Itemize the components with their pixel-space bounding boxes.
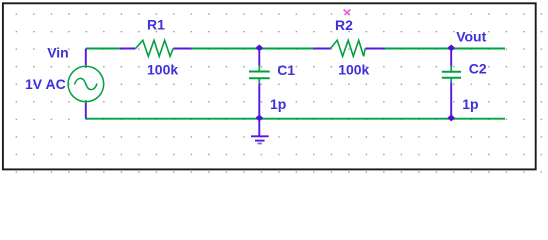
pin bottom: [85, 100, 87, 103]
pin bottom: [450, 79, 452, 83]
wire top net: source to R1: [86, 48, 120, 50]
capacitor C1: [249, 49, 270, 119]
svg-text:1p: 1p: [270, 96, 286, 112]
junction dot Vout node: [448, 45, 454, 50]
pin top: [85, 49, 87, 66]
svg-text:R2: R2: [335, 17, 353, 33]
svg-text:1p: 1p: [462, 96, 478, 112]
wire bottom ground net: [86, 118, 505, 120]
body circle: [68, 66, 104, 102]
svg-text:R1: R1: [147, 16, 165, 32]
junction dot C2 bottom: [448, 115, 454, 120]
cursor marker above R2: [344, 10, 351, 16]
pin left: [313, 48, 330, 50]
junction dot C1 top: [256, 45, 262, 50]
pin bottom: [258, 79, 260, 84]
schematic sheet border: [3, 3, 536, 169]
svg-text:100k: 100k: [147, 62, 178, 78]
pin right: [365, 48, 385, 50]
pin top: [450, 49, 452, 67]
resistor R1: [119, 40, 191, 56]
pin top: [258, 49, 260, 66]
pin right: [173, 48, 191, 50]
svg-text:Vin: Vin: [47, 44, 69, 60]
sine wave: [75, 78, 98, 89]
resistor R2: [313, 40, 385, 56]
junction dot C1 bottom: [256, 115, 262, 120]
wire node C1 top: R1 to R2: [191, 48, 313, 50]
pin left: [119, 48, 135, 50]
zigzag body: [330, 40, 365, 56]
capacitor C2: [442, 49, 461, 119]
svg-text:1V AC: 1V AC: [25, 76, 66, 92]
svg-text:C2: C2: [469, 61, 487, 77]
plate top: [249, 71, 270, 73]
plate top: [442, 71, 461, 73]
plate bottom: [442, 77, 461, 79]
ground GND: [251, 119, 269, 144]
svg-text:100k: 100k: [338, 61, 369, 77]
svg-text:Vout: Vout: [456, 29, 486, 45]
voltage source VS1 1V AC: [68, 49, 104, 119]
zigzag body: [136, 40, 174, 56]
plate bottom: [249, 77, 270, 79]
svg-text:C1: C1: [277, 62, 295, 78]
grid dots: [0, 0, 548, 188]
wire Vout net: R2 to end: [385, 48, 505, 50]
